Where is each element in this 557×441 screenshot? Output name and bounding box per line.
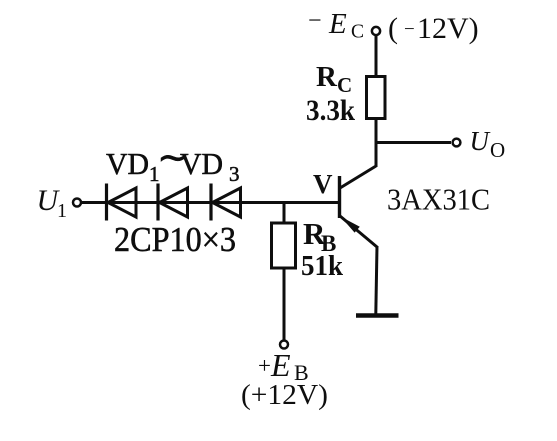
svg-text:2CP10×3: 2CP10×3 bbox=[114, 220, 236, 259]
svg-text:−: − bbox=[308, 8, 322, 34]
diode VD2 bbox=[158, 184, 188, 221]
transistor V bbox=[340, 166, 378, 247]
diode VD1 bbox=[107, 184, 137, 221]
svg-text:R: R bbox=[316, 61, 338, 93]
wire bbox=[283, 268, 286, 340]
svg-text:E: E bbox=[270, 347, 291, 383]
wire bbox=[283, 203, 286, 224]
svg-text:3AX31C: 3AX31C bbox=[387, 183, 490, 217]
svg-text:O: O bbox=[490, 138, 505, 162]
svg-text:3.3k: 3.3k bbox=[306, 94, 355, 127]
svg-text:U: U bbox=[470, 126, 491, 156]
svg-text:E: E bbox=[328, 8, 347, 40]
diode VD3 bbox=[211, 184, 241, 221]
svg-text:1: 1 bbox=[57, 200, 67, 222]
resistor R_C bbox=[367, 77, 386, 119]
ground bbox=[356, 313, 399, 318]
svg-text:(+12V): (+12V) bbox=[241, 380, 328, 411]
wire bbox=[375, 36, 378, 77]
svg-text:(: ( bbox=[388, 12, 398, 45]
terminal -E_C bbox=[372, 27, 380, 35]
wire bbox=[376, 141, 451, 144]
svg-text:+: + bbox=[258, 353, 271, 378]
terminal U_1 bbox=[73, 199, 81, 207]
svg-text:C: C bbox=[351, 22, 364, 43]
wire bbox=[82, 201, 340, 204]
wire bbox=[376, 246, 377, 314]
svg-text:VD1∼VD3: VD1∼VD3 bbox=[106, 137, 240, 186]
terminal U_O bbox=[453, 139, 461, 147]
svg-text:12V): 12V) bbox=[417, 12, 479, 45]
wire bbox=[375, 119, 378, 168]
terminal +E_B bbox=[280, 341, 288, 349]
svg-text:V: V bbox=[313, 169, 333, 199]
svg-text:51k: 51k bbox=[301, 251, 343, 282]
svg-text:−: − bbox=[404, 19, 415, 40]
resistor R_B bbox=[272, 223, 296, 268]
